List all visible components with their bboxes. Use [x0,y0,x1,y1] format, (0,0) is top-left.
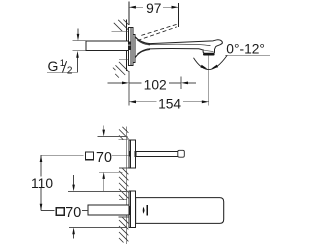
dimension 102 [108,82,123,84]
wall (bottom section) [126,127,128,245]
lever handle [136,198,224,224]
G1/2 extension lines [73,41,87,51]
wall hatch bottom-1 [119,127,128,140]
wall hatch bottom-2 [119,168,128,199]
tilted spout dashed lines [138,24,179,41]
spout mouth slant line [202,50,214,52]
G1/2 underline [47,71,78,73]
lower escutcheon top arrow [73,175,75,185]
handle detail lens [143,207,145,214]
spout top surface line [150,44,211,45]
hatch break line [119,58,129,60]
upper escutcheon (side view) [129,140,136,168]
square-70 label (lower) [41,210,55,212]
pipe bore through escutcheon [128,41,130,50]
angle arc [194,55,228,69]
bar bore marks [129,151,131,157]
text 154 [158,96,182,109]
text 97 [143,2,163,14]
handle detail bar [146,205,148,215]
svg-text:2: 2 [67,65,73,76]
lower escutcheon bottom arrow [73,234,75,239]
angle arc arrowheads [201,65,208,69]
dimension 97 line [129,6,144,8]
upper escutcheon dim lines [98,135,128,137]
angle reference vertical line [208,55,210,105]
square-70 label (upper) [41,154,84,156]
escutcheon (top view) [128,28,133,66]
wall reference line (dims) [128,71,130,106]
text 110 [31,176,54,188]
supply pipe (bottom) [88,205,129,215]
G1/2 leader arrow [77,58,79,73]
upper escutcheon top arrow [103,126,105,131]
svg-text:102: 102 [144,77,167,92]
svg-text:154: 154 [158,97,181,112]
spout bar (side view) [136,151,178,156]
svg-text:0°-12°: 0°-12° [226,42,265,57]
spout bar end cap [178,150,185,157]
spout outline [135,37,222,58]
dimension 110 [40,155,42,210]
supply pipe (top view) [86,41,128,51]
svg-text:70: 70 [96,150,112,166]
svg-text:110: 110 [31,176,53,191]
hatch break line [112,30,129,32]
wall hatch bottom-3 [119,217,128,242]
aerator dark band [203,53,215,55]
wall hatch top-upper [114,20,129,32]
dimension 154 [129,101,157,103]
wall (top section) [125,20,127,72]
wall hatch top-lower [113,62,129,78]
spout base plate [133,34,135,62]
lower escutcheon (side view) [129,191,136,227]
hatch break line [119,216,129,218]
svg-text:G: G [48,58,59,74]
lower escutcheon dim lines [68,190,127,192]
dimension 97 extension lines [129,2,179,28]
svg-text:70: 70 [65,205,81,221]
spout inner contour (flare) [136,38,150,44]
G1/2 top arrow [77,29,79,35]
hatch break line [119,167,129,169]
text 102 [144,77,168,90]
hatch break line [119,139,129,141]
0-12 underline [225,54,270,56]
svg-text:97: 97 [146,1,161,16]
upper escutcheon bottom arrow [103,179,105,192]
